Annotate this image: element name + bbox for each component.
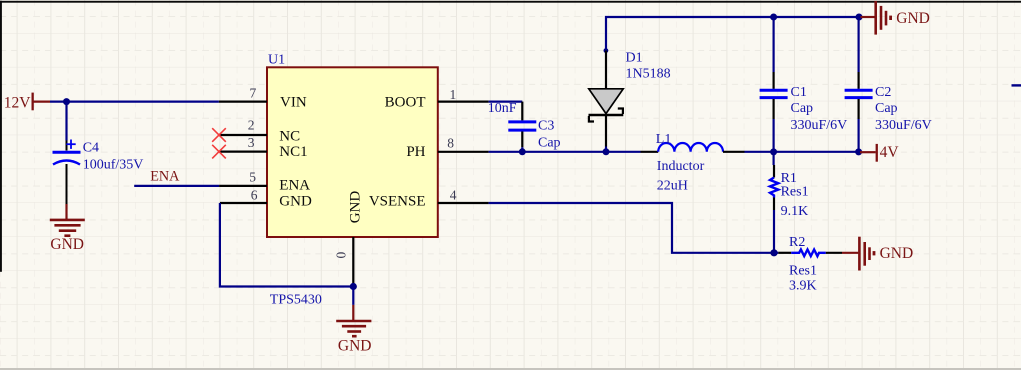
- svg-text:R2: R2: [789, 235, 805, 250]
- no-connect X on pin 2: [212, 128, 226, 142]
- svg-text:12V: 12V: [4, 94, 32, 111]
- resistor R1: [770, 152, 809, 253]
- pin 6 GND: [220, 188, 312, 210]
- node D1 top pin: [604, 48, 609, 53]
- svg-text:2: 2: [248, 117, 255, 132]
- wire C4 branch: [65, 102, 67, 141]
- svg-text:GND: GND: [50, 236, 84, 253]
- svg-text:Res1: Res1: [789, 263, 817, 278]
- wire GND pin6 to pin0: [220, 203, 353, 287]
- inductor L1: [641, 132, 745, 193]
- svg-text:330uF/6V: 330uF/6V: [791, 118, 848, 133]
- diode D1 1N5188: [589, 50, 671, 146]
- svg-text:C3: C3: [538, 118, 554, 133]
- svg-text:GND: GND: [880, 245, 914, 262]
- svg-text:9.1K: 9.1K: [781, 204, 809, 219]
- svg-text:GND: GND: [338, 337, 372, 354]
- svg-text:6: 6: [251, 188, 258, 203]
- svg-text:8: 8: [447, 135, 454, 150]
- node pin0 junction: [350, 283, 357, 290]
- ground GND (C4): [50, 204, 85, 253]
- node feedback junction: [770, 249, 777, 256]
- svg-text:Cap: Cap: [538, 135, 561, 150]
- wire pin0 to ground: [352, 287, 354, 305]
- pin 7 VIN: [219, 85, 307, 110]
- svg-text:D1: D1: [626, 50, 643, 65]
- no-connect X on pin 3: [212, 145, 226, 159]
- pin 3 NC1: [219, 135, 308, 160]
- wire ENA: [134, 185, 219, 187]
- svg-text:BOOT: BOOT: [385, 94, 426, 110]
- svg-text:VSENSE: VSENSE: [369, 194, 426, 210]
- pin 1 BOOT: [385, 87, 489, 111]
- port 12V: [4, 93, 50, 112]
- svg-text:GND: GND: [348, 191, 364, 224]
- svg-text:NC: NC: [279, 128, 300, 144]
- svg-text:3: 3: [248, 135, 255, 150]
- svg-text:NC1: NC1: [279, 144, 307, 160]
- ground GND (top right): [861, 1, 930, 35]
- node C3 junction: [519, 148, 526, 155]
- svg-text:C2: C2: [875, 85, 891, 100]
- wire top rail: [606, 17, 859, 152]
- svg-text:VIN: VIN: [280, 94, 307, 110]
- node C1 top junction: [770, 14, 777, 21]
- wire L1 to output rail: [745, 151, 859, 153]
- svg-text:L1: L1: [656, 132, 672, 147]
- svg-text:ENA: ENA: [279, 177, 310, 193]
- svg-text:GND: GND: [896, 10, 930, 27]
- svg-text:0: 0: [334, 252, 349, 259]
- svg-text:7: 7: [250, 85, 257, 100]
- svg-text:Inductor: Inductor: [657, 159, 705, 174]
- ground GND (R2): [842, 237, 913, 271]
- capacitor C2: [845, 17, 932, 152]
- svg-text:4V: 4V: [880, 144, 900, 161]
- wire C3 to PH rail: [521, 147, 523, 152]
- node 12V/C4 junction: [63, 98, 70, 105]
- node C2 top junction: [856, 14, 863, 21]
- ground GND (U1 bottom): [336, 305, 371, 355]
- wire 12V to VIN: [50, 100, 219, 102]
- wire BOOT to C3: [489, 100, 523, 102]
- svg-text:U1: U1: [268, 52, 285, 67]
- pin 4 VSENSE: [369, 188, 489, 210]
- svg-text:1: 1: [450, 87, 457, 102]
- svg-text:C4: C4: [83, 140, 99, 155]
- pin 5 ENA: [219, 169, 310, 193]
- capacitor C1: [760, 17, 848, 152]
- svg-text:22uH: 22uH: [657, 179, 688, 194]
- svg-text:Res1: Res1: [781, 184, 809, 199]
- wire VSENSE feedback: [489, 203, 774, 253]
- svg-text:1N5188: 1N5188: [626, 67, 671, 82]
- svg-text:10nF: 10nF: [488, 101, 517, 116]
- node output junction left: [770, 148, 777, 155]
- svg-text:330uF/6V: 330uF/6V: [875, 118, 932, 133]
- svg-text:Cap: Cap: [791, 101, 814, 116]
- svg-text:C1: C1: [791, 85, 807, 100]
- node D1 junction: [603, 148, 610, 155]
- pin 2 NC: [219, 117, 300, 144]
- port 4V: [860, 144, 899, 162]
- wire stub right edge: [1012, 84, 1021, 86]
- svg-text:PH: PH: [406, 144, 425, 160]
- svg-text:4: 4: [450, 188, 457, 203]
- svg-text:TPS5430: TPS5430: [270, 292, 322, 307]
- wire PH rail: [489, 151, 641, 153]
- svg-text:Cap: Cap: [875, 101, 898, 116]
- node output junction right: [855, 148, 862, 155]
- svg-text:ENA: ENA: [150, 169, 180, 185]
- svg-text:GND: GND: [279, 194, 312, 210]
- capacitor C3: [488, 101, 561, 150]
- svg-text:3.9K: 3.9K: [789, 278, 817, 293]
- net label ENA: [150, 169, 180, 185]
- svg-text:100uf/35V: 100uf/35V: [83, 157, 144, 172]
- pin 8 PH: [406, 135, 488, 160]
- capacitor C4: [53, 140, 144, 205]
- resistor R2: [774, 235, 842, 293]
- op-amp U1 body (TPS5430): [267, 52, 438, 307]
- svg-text:5: 5: [249, 169, 256, 184]
- pin 0 GND bottom: [334, 191, 364, 287]
